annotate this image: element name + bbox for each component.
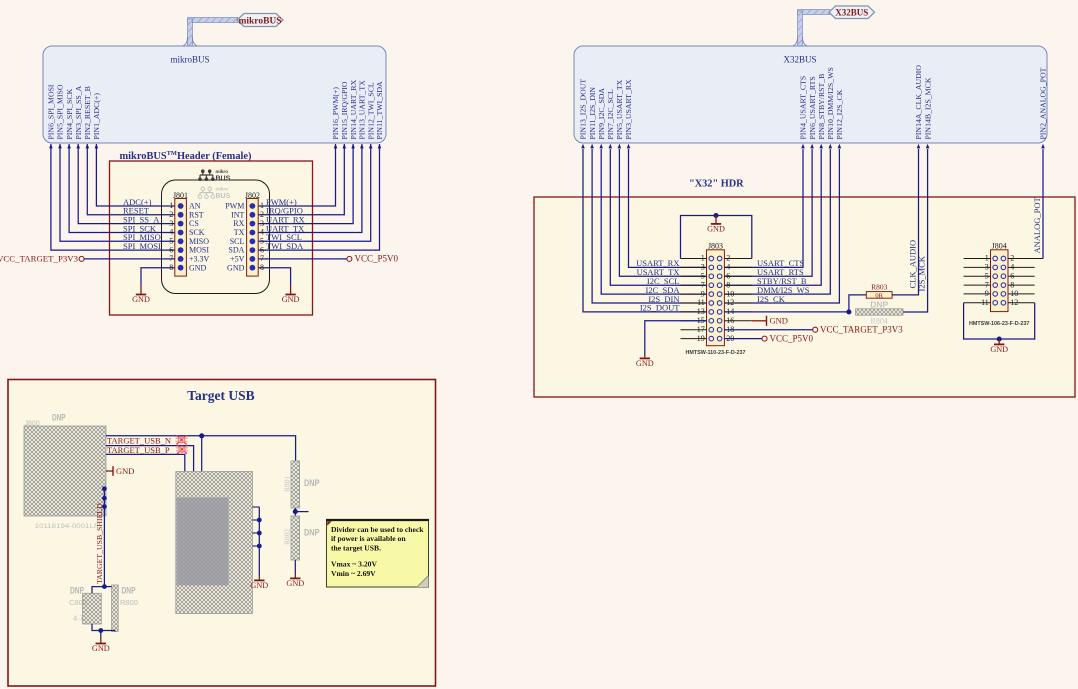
bus wire mikroBUS (hatched bus line)	[181, 18, 239, 47]
connector J803	[707, 242, 725, 346]
net tag X32BUS	[829, 6, 875, 19]
svg-text:mikro: mikro	[216, 169, 229, 174]
resistor R802 (DNP)	[283, 516, 320, 560]
svg-text:SPI_MOSI: SPI_MOSI	[123, 241, 161, 251]
resistor R801 (DNP)	[283, 461, 320, 508]
power port VCC_P5V0	[347, 254, 399, 264]
svg-text:PIN15_IRQ/GPIO: PIN15_IRQ/GPIO	[340, 81, 349, 139]
svg-text:2: 2	[260, 210, 264, 219]
X32BUS sheet-symbol pin labels (PIN14A/PIN14B)	[914, 65, 932, 140]
svg-text:GND: GND	[250, 581, 268, 590]
resistor R804 (DNP)	[856, 299, 904, 325]
wire net USART_TX	[619, 149, 706, 276]
sheet symbol mikroBUS	[43, 46, 386, 143]
svg-text:8: 8	[260, 263, 264, 272]
ground symbol J800	[106, 466, 134, 476]
junction	[846, 309, 851, 314]
wire divider tap stub	[295, 511, 308, 513]
svg-text:PIN9_I2C_SDA: PIN9_I2C_SDA	[597, 88, 606, 140]
svg-text:SCK: SCK	[189, 228, 205, 237]
svg-text:PIN6_USART_RTS: PIN6_USART_RTS	[808, 76, 817, 139]
wire net PWM(+)	[258, 144, 335, 206]
svg-text:PIN5_SPI_MISO: PIN5_SPI_MISO	[56, 84, 65, 139]
wire to GND	[100, 631, 102, 638]
wire J803 pins 1-2 to GND	[681, 216, 752, 259]
svg-text:6: 6	[169, 245, 173, 254]
power port VCC_TARGET_P3V3 (J803)	[813, 325, 904, 335]
svg-text:the target USB.: the target USB.	[331, 544, 381, 553]
svg-text:TARGET_USB_P: TARGET_USB_P	[107, 445, 170, 455]
wire J802 GND	[258, 268, 290, 286]
svg-text:VCC_P5V0: VCC_P5V0	[355, 254, 399, 264]
ground symbol USB block	[258, 576, 260, 580]
connector J801	[173, 191, 188, 276]
wire R804 to I2S_MCK	[903, 149, 928, 312]
wire junction to USB block	[201, 436, 203, 472]
svg-text:PIN3_USART_RX: PIN3_USART_RX	[624, 79, 633, 140]
wire net USART_RTS	[724, 149, 812, 276]
svg-text:2: 2	[169, 210, 173, 219]
svg-text:X32BUS: X32BUS	[783, 55, 816, 65]
svg-text:mikroBUS: mikroBUS	[238, 16, 281, 26]
wire net ANALOG_POT	[1042, 149, 1044, 259]
socket outline	[162, 180, 270, 294]
svg-text:CS: CS	[189, 219, 199, 228]
svg-text:MOSI: MOSI	[189, 246, 209, 255]
wire net USART_RX	[629, 149, 707, 267]
wire R803 to CLK_AUDIO	[892, 149, 918, 295]
bus wire X32BUS	[791, 10, 831, 47]
svg-text:DNP: DNP	[122, 586, 136, 596]
svg-text:6: 6	[260, 245, 264, 254]
svg-text:RX: RX	[233, 219, 244, 228]
svg-text:PIN5_USART_TX: PIN5_USART_TX	[615, 79, 624, 139]
svg-text:R802: R802	[283, 528, 292, 545]
note sticky	[326, 520, 429, 588]
wire J803 pin18	[724, 329, 812, 331]
svg-text:Target USB: Target USB	[187, 388, 254, 403]
svg-text:RST: RST	[189, 210, 204, 219]
wire net SPI_SS_A	[78, 144, 175, 224]
wire R801-R802 junction	[294, 508, 296, 516]
svg-text:PIN11_I2S_DIN: PIN11_I2S_DIN	[588, 87, 597, 140]
svg-text:ANALOG_POT: ANALOG_POT	[1032, 197, 1042, 254]
wire net I2S_DIN	[592, 149, 706, 303]
wire net TWI_SDA	[258, 144, 379, 250]
ground symbol above J803	[715, 216, 717, 224]
box Target USB	[8, 380, 436, 687]
wire net I2S_DOUT	[583, 149, 707, 312]
svg-text:4: 4	[169, 228, 173, 237]
box mikroBUS header	[110, 161, 313, 315]
svg-text:+3.3V: +3.3V	[189, 255, 210, 264]
svg-text:PIN11_TWI_SDA: PIN11_TWI_SDA	[375, 81, 384, 140]
resistor R803	[866, 283, 892, 300]
junction divider tap	[293, 509, 298, 514]
svg-text:GND: GND	[189, 263, 207, 272]
svg-text:mikro: mikro	[216, 187, 229, 192]
no-ERC marker TARGET_USB_P	[176, 445, 188, 454]
wire net TARGET_USB_P	[106, 446, 194, 472]
J803 right net labels	[757, 258, 810, 304]
wire net USART_CTS	[724, 149, 803, 267]
X32BUS sheet-symbol pin label PIN2_ANALOG_POT	[1039, 67, 1048, 139]
svg-text:PIN2_RESET_B: PIN2_RESET_B	[83, 86, 92, 139]
net tag mikroBUS	[237, 14, 283, 27]
ground symbol bottom-left	[100, 637, 102, 644]
svg-text:10118194-0001LF: 10118194-0001LF	[35, 523, 99, 530]
bus pin arrowheads mikroBUS	[49, 144, 381, 149]
svg-text:I2S_MCK: I2S_MCK	[917, 255, 927, 291]
wire J804 pins 11-12 to GND	[964, 303, 1035, 339]
wire J803 pin20	[724, 338, 762, 340]
J804 left pin stubs	[964, 259, 991, 303]
power port VCC_P5V0 (J803)	[762, 333, 814, 343]
connector J802	[245, 191, 260, 276]
svg-text:AN: AN	[189, 202, 201, 211]
J803 pin numbers	[697, 254, 734, 343]
wire net IRQ/GPIO	[258, 144, 344, 215]
svg-text:TARGET_USB_N: TARGET_USB_N	[107, 435, 171, 445]
X32BUS sheet-symbol pin labels (middle group)	[799, 67, 844, 139]
svg-text:DNP: DNP	[304, 478, 320, 488]
svg-text:DNP: DNP	[870, 299, 888, 309]
svg-text:PIN3_SPI_SS_A: PIN3_SPI_SS_A	[74, 85, 83, 139]
svg-text:mikroBUS: mikroBUS	[170, 55, 209, 65]
svg-text:GND: GND	[132, 295, 150, 304]
svg-text:PIN16_PWM(+): PIN16_PWM(+)	[331, 87, 340, 140]
wire shield to R800	[104, 586, 111, 588]
svg-text:mikroBUSTMHeader (Female): mikroBUSTMHeader (Female)	[120, 150, 252, 162]
J804 pin numbers	[981, 254, 1018, 307]
svg-text:SDA: SDA	[228, 246, 244, 255]
wire net +3.3V	[84, 258, 175, 260]
J802 pin numbers	[260, 201, 264, 272]
svg-text:X32BUS: X32BUS	[835, 7, 868, 17]
svg-text:GND: GND	[636, 359, 654, 368]
svg-text:PIN12_TWI_SCL: PIN12_TWI_SCL	[366, 82, 375, 139]
wire net I2C_SDA	[601, 149, 706, 294]
svg-text:1: 1	[260, 201, 264, 210]
svg-text:8: 8	[169, 263, 173, 272]
svg-text:VCC_TARGET_P3V3: VCC_TARGET_P3V3	[820, 325, 903, 335]
junction bottom	[98, 628, 103, 633]
svg-text:VCC_TARGET_P3V3: VCC_TARGET_P3V3	[0, 254, 79, 264]
svg-text:GND: GND	[282, 295, 300, 304]
mikroBUS logo watermark	[198, 187, 230, 201]
wire net TWI_SCL	[258, 144, 371, 241]
svg-text:MISO: MISO	[189, 237, 209, 246]
svg-text:3: 3	[260, 219, 264, 228]
sheet symbol X32BUS	[574, 46, 1047, 143]
svg-text:4.7: 4.7	[73, 614, 83, 623]
wire net SPI_SCK	[69, 144, 175, 233]
junction shield pins	[102, 486, 107, 509]
USB connector block (center, DNP)	[176, 472, 253, 614]
wire J800 pin to USB block	[106, 454, 185, 471]
junction	[713, 213, 718, 218]
svg-text:R801: R801	[283, 475, 292, 492]
svg-text:INT: INT	[231, 210, 244, 219]
J803 left net labels	[636, 258, 680, 313]
J803 right pin stubs	[724, 259, 751, 321]
USB block right pin stubs	[252, 507, 259, 546]
svg-text:J804: J804	[992, 242, 1007, 251]
svg-text:1: 1	[169, 201, 173, 210]
svg-text:+5V: +5V	[230, 255, 245, 264]
wire net DMM/I2S_WS	[724, 149, 830, 294]
svg-text:PIN4_SPI_SCK: PIN4_SPI_SCK	[65, 88, 74, 139]
svg-text:GND: GND	[92, 644, 110, 653]
ground symbol lower-left of J803	[644, 355, 646, 358]
ground symbol divider	[294, 574, 296, 578]
junctions on rail	[257, 518, 262, 549]
wire USB shield rail	[258, 507, 260, 576]
svg-text:"X32" HDR: "X32" HDR	[689, 179, 744, 190]
svg-text:I2S_DOUT: I2S_DOUT	[640, 303, 680, 313]
svg-text:7: 7	[260, 254, 264, 263]
J802 pin names	[225, 202, 244, 273]
svg-text:DNP: DNP	[304, 528, 320, 538]
ground symbol J801	[140, 286, 142, 295]
svg-text:R804: R804	[871, 317, 888, 326]
svg-text:TX: TX	[234, 228, 245, 237]
wire J803 pin14 net	[724, 311, 849, 313]
svg-text:GND: GND	[227, 263, 245, 272]
wire net UART_TX	[258, 144, 362, 233]
wire J801 GND	[141, 268, 175, 286]
svg-text:PIN2_ANALOG_POT: PIN2_ANALOG_POT	[1039, 67, 1048, 139]
X32BUS sheet-symbol pin labels (left group)	[579, 79, 634, 140]
capacitor C800 (DNP)	[69, 586, 101, 625]
svg-text:R803: R803	[871, 283, 888, 292]
svg-text:PIN6_SPI_MOSI: PIN6_SPI_MOSI	[47, 84, 56, 139]
junction shield bottom	[102, 584, 107, 589]
svg-text:TARGET_USB_SHIELD: TARGET_USB_SHIELD	[95, 503, 104, 584]
svg-text:PIN10_DMM/I2S_WS: PIN10_DMM/I2S_WS	[826, 67, 835, 139]
junction	[199, 433, 204, 438]
svg-text:GND: GND	[707, 225, 725, 234]
wire net UART_RX	[258, 144, 353, 224]
svg-text:PIN14_UART_RX: PIN14_UART_RX	[349, 79, 358, 139]
svg-text:GND: GND	[116, 466, 134, 476]
junction	[997, 336, 1002, 341]
svg-text:PIN13_I2S_DOUT: PIN13_I2S_DOUT	[579, 79, 588, 140]
svg-text:PIN8_STBY/RST_B: PIN8_STBY/RST_B	[817, 74, 826, 140]
svg-text:GND: GND	[286, 579, 304, 588]
svg-text:Vmin ~ 2.69V: Vmin ~ 2.69V	[331, 569, 376, 578]
wire net TARGET_USB_SHIELD	[103, 487, 105, 587]
wire net SPI_MOSI	[51, 144, 175, 250]
connector J804	[991, 242, 1009, 312]
svg-text:I2S_CK: I2S_CK	[757, 294, 786, 304]
mikroBUS sheet-symbol pin labels (right group)	[331, 79, 384, 139]
svg-text:5: 5	[260, 237, 264, 246]
ground symbol J802	[290, 286, 292, 295]
svg-text:PIN4_USART_CTS: PIN4_USART_CTS	[799, 76, 808, 140]
svg-text:7: 7	[169, 254, 173, 263]
svg-text:Divider can be used to check: Divider can be used to check	[331, 525, 424, 534]
svg-text:PIN1_ADC(+): PIN1_ADC(+)	[92, 93, 101, 140]
ground symbol J804	[998, 339, 1000, 344]
svg-text:SCL: SCL	[230, 237, 245, 246]
svg-text:R800: R800	[120, 598, 138, 607]
svg-text:GND: GND	[990, 345, 1008, 354]
power port VCC_TARGET_P3V3	[0, 254, 84, 264]
J801 pin names	[189, 202, 210, 273]
svg-text:BUS: BUS	[216, 193, 231, 200]
svg-text:DNP: DNP	[52, 413, 66, 423]
wire net STBY/RST_B	[724, 149, 821, 285]
wire shield to C800	[92, 587, 104, 594]
mikroBUS logo	[198, 169, 230, 183]
svg-text:PIN14B_I2S_MCK: PIN14B_I2S_MCK	[923, 77, 932, 139]
ground symbol J803 pin16	[752, 316, 788, 326]
resistor R800 (DNP)	[112, 585, 138, 632]
wire net ADC(+)	[96, 144, 174, 206]
connector J800 (DNP)	[24, 413, 106, 531]
wire net TARGET_USB_N	[106, 436, 296, 461]
svg-text:PIN7_I2C_SCL: PIN7_I2C_SCL	[606, 89, 615, 139]
J803 left pin stubs	[681, 259, 707, 339]
svg-text:J803: J803	[708, 242, 723, 251]
svg-text:4: 4	[260, 228, 264, 237]
no-ERC marker TARGET_USB_N	[176, 435, 188, 444]
svg-text:PWM: PWM	[225, 202, 244, 211]
wire to R803	[849, 295, 866, 312]
svg-text:GND: GND	[770, 316, 788, 326]
svg-text:if power is available on: if power is available on	[331, 534, 406, 543]
svg-text:DNP: DNP	[70, 586, 84, 596]
svg-text:HMTSW-110-23-F-D-237: HMTSW-110-23-F-D-237	[685, 350, 745, 356]
svg-text:3: 3	[169, 219, 173, 228]
svg-text:5: 5	[169, 237, 173, 246]
svg-text:Vmax ~ 3.20V: Vmax ~ 3.20V	[331, 560, 377, 569]
svg-text:PIN13_UART_TX: PIN13_UART_TX	[358, 80, 367, 140]
svg-text:VCC_P5V0: VCC_P5V0	[770, 333, 814, 343]
wire net I2C_SCL	[610, 149, 706, 285]
wire C800/R800 bottom	[92, 624, 115, 632]
svg-text:PIN14A_CLK_AUDIO: PIN14A_CLK_AUDIO	[914, 65, 923, 140]
svg-text:BUS: BUS	[216, 176, 231, 183]
mikroBUS sheet-symbol pin labels (left group)	[47, 84, 102, 139]
svg-text:PIN12_I2S_CK: PIN12_I2S_CK	[835, 89, 844, 139]
bus pin arrowheads X32BUS	[581, 144, 1045, 149]
wire net I2S_CK	[724, 149, 839, 303]
svg-text:TWI_SDA: TWI_SDA	[266, 241, 304, 251]
J804 right pin stubs	[1008, 259, 1043, 303]
wire R802 to GND	[294, 560, 296, 574]
J801 pin numbers	[169, 201, 173, 272]
wire J803 pin15 GND	[645, 321, 707, 355]
wire net +5V	[258, 258, 347, 260]
wire net RESET	[87, 144, 175, 215]
svg-text:HMTSW-106-23-F-D-237: HMTSW-106-23-F-D-237	[969, 321, 1029, 327]
wire net SPI_MISO	[60, 144, 175, 241]
box X32 HDR	[534, 197, 1075, 397]
